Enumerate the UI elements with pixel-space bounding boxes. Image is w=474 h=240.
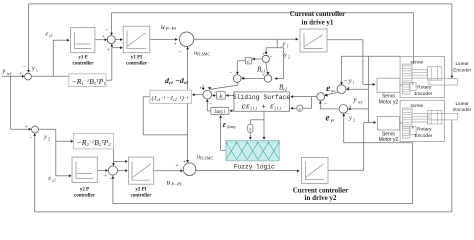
svg-text:−: − bbox=[29, 136, 32, 142]
svg-text:2: 2 bbox=[353, 118, 355, 122]
svg-text:Motor y2: Motor y2 bbox=[379, 100, 399, 106]
svg-text:controller: controller bbox=[130, 194, 152, 199]
svg-text:y2 P: y2 P bbox=[80, 188, 89, 193]
svg-text:Motor y2: Motor y2 bbox=[379, 137, 399, 143]
svg-text:Current controller: Current controller bbox=[290, 10, 346, 18]
svg-text:+: + bbox=[19, 71, 22, 77]
svg-text:Sliding Surface: Sliding Surface bbox=[233, 94, 291, 101]
svg-text:+: + bbox=[183, 159, 186, 165]
svg-text:+: + bbox=[262, 73, 265, 79]
svg-text:Encoder: Encoder bbox=[415, 133, 433, 139]
svg-text:y1 P: y1 P bbox=[78, 56, 87, 61]
svg-text:+: + bbox=[175, 163, 178, 169]
svg-text:−: − bbox=[105, 27, 108, 33]
svg-text:Sat(.): Sat(.) bbox=[214, 110, 225, 115]
svg-text:y: y bbox=[348, 115, 352, 122]
svg-text:−: − bbox=[23, 64, 26, 70]
svg-text:−: − bbox=[344, 78, 347, 84]
svg-text:+: + bbox=[207, 85, 210, 91]
svg-text:controller: controller bbox=[72, 62, 94, 67]
svg-text:+: + bbox=[102, 34, 105, 40]
svg-text:−: − bbox=[178, 50, 181, 56]
svg-text:s: s bbox=[299, 107, 301, 112]
svg-text:−: − bbox=[109, 177, 112, 183]
svg-text:y2 PI: y2 PI bbox=[135, 188, 146, 193]
svg-text:+: + bbox=[347, 85, 350, 91]
svg-text:s: s bbox=[249, 128, 251, 133]
svg-text:y: y bbox=[31, 65, 35, 72]
svg-text:+: + bbox=[174, 41, 177, 47]
svg-text:−R1−1B1TP1: −R1−1B1TP1 bbox=[72, 77, 106, 86]
svg-text:y2: y2 bbox=[51, 179, 56, 183]
svg-text:−: − bbox=[324, 101, 327, 107]
svg-text:1: 1 bbox=[353, 81, 355, 85]
svg-text:Encoder: Encoder bbox=[415, 91, 433, 97]
svg-text:y: y bbox=[43, 134, 47, 141]
svg-text:2: 2 bbox=[288, 55, 290, 59]
svg-text:e: e bbox=[49, 176, 52, 182]
svg-text:−: − bbox=[275, 77, 278, 83]
svg-text:y: y bbox=[282, 41, 286, 48]
svg-text:+: + bbox=[199, 86, 202, 92]
svg-text:Rotary: Rotary bbox=[417, 84, 432, 90]
svg-text:y1 PI: y1 PI bbox=[131, 56, 142, 61]
svg-text:Linear: Linear bbox=[456, 61, 470, 67]
svg-text:Fuzzy logic: Fuzzy logic bbox=[234, 164, 275, 171]
svg-text:in drive y2: in drive y2 bbox=[305, 194, 337, 202]
svg-text:Rotary: Rotary bbox=[417, 127, 432, 133]
svg-text:1: 1 bbox=[287, 44, 289, 48]
svg-text:Encoder: Encoder bbox=[453, 67, 471, 73]
svg-text:in drive y1: in drive y1 bbox=[302, 18, 334, 26]
svg-text:screw: screw bbox=[411, 60, 424, 66]
svg-text:k: k bbox=[219, 94, 222, 100]
svg-text:+: + bbox=[349, 105, 352, 111]
svg-text:uFLSMC: uFLSMC bbox=[197, 155, 213, 161]
svg-text:y: y bbox=[348, 77, 352, 84]
svg-text:e: e bbox=[46, 32, 49, 38]
svg-text:controller: controller bbox=[74, 194, 96, 199]
svg-text:−: − bbox=[209, 101, 212, 107]
svg-text:+: + bbox=[107, 47, 110, 53]
svg-text:y1: y1 bbox=[48, 34, 53, 38]
svg-text:+: + bbox=[104, 173, 107, 179]
svg-text:1: 1 bbox=[36, 69, 38, 73]
svg-text:Encoder: Encoder bbox=[453, 107, 471, 113]
svg-text:−: − bbox=[345, 111, 348, 117]
svg-text:−: − bbox=[229, 71, 232, 77]
svg-text:controller: controller bbox=[126, 62, 148, 67]
svg-text:+: + bbox=[325, 88, 328, 94]
svg-text:−: − bbox=[213, 90, 216, 96]
svg-text:uFLSMC: uFLSMC bbox=[194, 51, 210, 57]
svg-text:−: − bbox=[269, 54, 272, 60]
svg-text:y: y bbox=[283, 52, 287, 59]
svg-text:Linear: Linear bbox=[456, 101, 470, 107]
svg-text:screw: screw bbox=[411, 103, 424, 109]
svg-text:+: + bbox=[262, 52, 265, 58]
svg-text:+: + bbox=[25, 124, 28, 130]
svg-text:−R2−1B2TP2: −R2−1B2TP2 bbox=[77, 138, 112, 147]
svg-text:+: + bbox=[241, 75, 244, 81]
svg-text:2: 2 bbox=[48, 137, 50, 141]
